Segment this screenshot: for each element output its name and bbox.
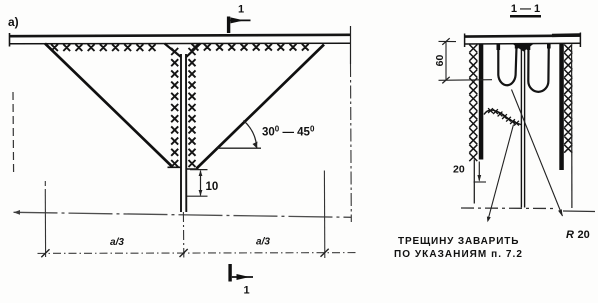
insert bottom edges at rib (168, 167, 199, 169)
weld column right of rib (189, 48, 196, 167)
leader to R20 (512, 90, 563, 217)
insert plate left diagonal edge (45, 44, 173, 168)
svg-text:60: 60 (434, 55, 446, 67)
crack line (484, 110, 521, 124)
right U slot (528, 44, 549, 92)
stiffener top snipe V (165, 44, 201, 58)
web bottom edge lines (461, 207, 556, 210)
weld column left of rib (171, 48, 178, 167)
dimension line a/3 + a/3 (38, 252, 359, 255)
weld row under flange, left run (51, 44, 155, 51)
beam top flange (left view) (10, 33, 351, 47)
left rib weld hatch (469, 45, 477, 162)
section flange (464, 33, 581, 48)
beam bottom chord axis line (14, 212, 352, 217)
right rib outer edge (571, 46, 573, 208)
svg-text:ПО УКАЗАНИЯМ п. 7.2: ПО УКАЗАНИЯМ п. 7.2 (394, 249, 523, 260)
svg-text:R: R (566, 229, 574, 241)
angle annotation 30-45 deg (217, 147, 261, 149)
dimension extension lines (44, 181, 46, 193)
right symmetry line (350, 26, 352, 64)
svg-text:1: 1 (238, 4, 244, 16)
left U slot (498, 44, 516, 86)
web-to-flange weld wedge (512, 44, 534, 52)
beam break dashed line (left) (12, 92, 15, 176)
rib center line below (182, 212, 184, 258)
svg-text:ТРЕЩИНУ ЗАВАРИТЬ: ТРЕЩИНУ ЗАВАРИТЬ (398, 236, 519, 247)
dimension 10 (187, 170, 208, 197)
svg-text:1: 1 (243, 285, 249, 297)
svg-text:a): a) (8, 15, 19, 29)
right rib weld hatch (564, 45, 572, 153)
svg-text:20: 20 (453, 164, 465, 176)
svg-text:a/3: a/3 (256, 237, 270, 248)
svg-text:20: 20 (578, 229, 590, 241)
tick slashes (41, 249, 328, 257)
section marker top (227, 4, 251, 34)
right rib cut face (solid) (559, 44, 564, 170)
web (double line) (521, 44, 524, 208)
insert plate right diagonal edge (197, 45, 325, 169)
svg-text:a/3: a/3 (110, 237, 124, 248)
dimension 60 (439, 41, 493, 80)
section marker bottom (228, 264, 253, 297)
left rib edge below (473, 160, 475, 204)
leader to crack note (488, 125, 514, 221)
svg-text:1 — 1: 1 — 1 (511, 3, 540, 15)
svg-text:10: 10 (206, 181, 219, 193)
weld row under flange, right run (192, 44, 309, 51)
svg-text:300 — 450: 300 — 450 (262, 125, 315, 139)
crack hatch ticks (488, 108, 493, 113)
left rib cut face (solid) (479, 44, 484, 160)
stiffener rib (double line) (181, 54, 186, 212)
